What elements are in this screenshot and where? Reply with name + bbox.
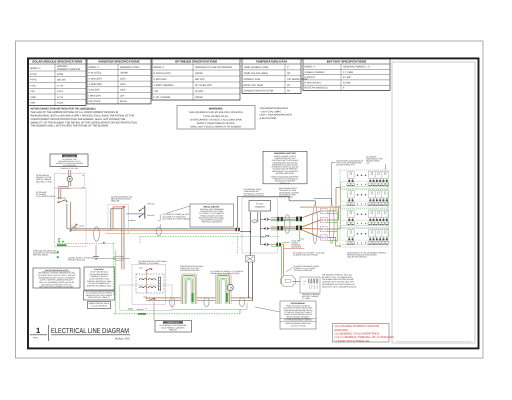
conduit GEC xyxy=(113,256,124,260)
table OPTIMIZER SPECIFICATIONS xyxy=(152,58,240,100)
svg-text:120/240V, 1-PH, NEMA 1: 120/240V, 1-PH, NEMA 1 xyxy=(139,262,160,265)
svg-text:P RATED: P RATED xyxy=(305,76,315,79)
wire panel bus down xyxy=(67,202,71,230)
svg-text:240V: 240V xyxy=(120,83,126,86)
svg-text:P STC: P STC xyxy=(30,73,37,76)
wire ground run dashed xyxy=(140,237,280,254)
table BATTERY SPECIFICATIONS xyxy=(303,58,390,90)
note optimizer leader xyxy=(366,156,386,170)
wire ground bottom run xyxy=(114,244,247,315)
note box conductor schedule xyxy=(84,291,115,300)
svg-text:SHALL NOT EXCEED AMPACITY OF B: SHALL NOT EXCEED AMPACITY OF BUSBAR. xyxy=(190,126,242,129)
svg-text:I SC: I SC xyxy=(154,90,159,93)
svg-text:(20) SOLARIA POWERXT-400R-PM: (20) SOLARIA POWERXT-400R-PM xyxy=(335,325,380,328)
wire roof feeder xyxy=(300,206,339,208)
svg-text:35°: 35° xyxy=(287,84,291,87)
svg-text:60A RATED: 60A RATED xyxy=(291,246,301,249)
note battery cable xyxy=(286,265,320,272)
warning box rapid shutdown bottom xyxy=(280,301,316,329)
wire grounding electrode conductor xyxy=(96,245,130,259)
svg-text:INTERCONNECTION METHOD PER 705: INTERCONNECTION METHOD PER 705.12(B)(2)(… xyxy=(31,108,96,111)
utility kWh meter M1 xyxy=(67,176,72,181)
conduit loop 1 xyxy=(181,274,197,304)
PV module S3-3 xyxy=(375,210,382,221)
svg-text:BATTERY MODULES: BATTERY MODULES xyxy=(305,87,329,90)
PV module S1-3 xyxy=(375,171,382,182)
string 1 optimizer bus xyxy=(342,182,389,187)
conduit roof run xyxy=(329,205,334,244)
PV module S2-2 xyxy=(369,191,376,202)
string 3 dots xyxy=(357,213,367,215)
svg-text:36°: 36° xyxy=(287,72,291,75)
svg-text:TEMP (ASHRAE LOW): TEMP (ASHRAE LOW) xyxy=(244,66,269,69)
svg-text:P DC / STRING: P DC / STRING xyxy=(154,96,171,99)
svg-text:9.0 kW: 9.0 kW xyxy=(343,81,351,84)
svg-text:SCALE: NTS: SCALE: NTS xyxy=(115,337,130,340)
svg-text:9.11A: 9.11A xyxy=(57,90,63,93)
svg-text:6.7 kW: 6.7 kW xyxy=(343,76,351,79)
note box equipment schedule xyxy=(84,267,115,290)
svg-text:360 VDC: 360 VDC xyxy=(195,78,205,81)
svg-text:2°: 2° xyxy=(287,66,289,69)
svg-text:420V: 420V xyxy=(120,77,126,80)
warning box busbar xyxy=(177,106,255,130)
string 2 dots xyxy=(357,194,367,196)
fuse holder string 1 xyxy=(277,217,283,221)
svg-text:NEMA 3R: NEMA 3R xyxy=(111,200,120,203)
PV module S3-1 xyxy=(348,210,355,221)
svg-text:NEMA 3R WALL MOUNT: NEMA 3R WALL MOUNT xyxy=(244,194,266,197)
svg-text:SYSTEM OPERATION NOTES: SYSTEM OPERATION NOTES xyxy=(45,269,69,272)
svg-text:90°: 90° xyxy=(287,90,291,93)
note breaker sizing xyxy=(260,107,293,120)
svg-text:COMBINER: COMBINER xyxy=(255,206,266,209)
svg-text:XHHW-2 (N) + (1) 6 AWG CU (GND: XHHW-2 (N) + (1) 6 AWG CU (GND) xyxy=(211,272,241,275)
warning box multiple sources xyxy=(263,151,307,185)
svg-text:WARNING:: WARNING: xyxy=(209,107,224,111)
wire AC equipment ground xyxy=(105,232,240,234)
PV module S3-4 xyxy=(382,210,389,221)
svg-text:(1 & 2) GENERAC PWRCELL OF 17: (1 & 2) GENERAC PWRCELL OF 17 MODULES xyxy=(335,336,395,339)
svg-text:OPTIMIZER SPECIFICATIONS: OPTIMIZER SPECIFICATIONS xyxy=(175,60,217,64)
svg-text:I MP: I MP xyxy=(30,102,35,105)
PV module S2-4 xyxy=(382,191,389,202)
svg-text:CU GND IN FREE AIR: CU GND IN FREE AIR xyxy=(294,269,313,272)
svg-text:USABLE ENERGY: USABLE ENERGY xyxy=(305,71,326,74)
fuse holder string 2 xyxy=(277,226,283,230)
surge protection device xyxy=(246,255,255,268)
svg-text:41.1V: 41.1V xyxy=(57,96,64,99)
production meter M xyxy=(227,285,233,291)
svg-text:BEFORE SERVICING.: BEFORE SERVICING. xyxy=(276,172,295,175)
svg-text:400W: 400W xyxy=(57,73,64,76)
string 3 optimizer bus xyxy=(342,221,389,226)
PV string 4 group box xyxy=(340,229,388,248)
svg-text:CABLES PER MODULE: CABLES PER MODULE xyxy=(347,256,368,259)
svg-text:96.5%: 96.5% xyxy=(120,100,128,103)
svg-text:SUPPORTED PER NEC: SUPPORTED PER NEC xyxy=(180,269,200,272)
backup loads panel enclosure xyxy=(132,264,166,304)
PV module S4-4 xyxy=(382,230,389,241)
PV module S1-2 xyxy=(369,171,376,182)
svg-text:ELECTRICAL LINE DIAGRAM: ELECTRICAL LINE DIAGRAM xyxy=(51,327,129,335)
svg-text:CONDUCTOR RATED FOR: CONDUCTOR RATED FOR xyxy=(244,90,274,93)
PV breaker 40A xyxy=(70,224,84,232)
backup panel main breaker 200A xyxy=(139,266,152,271)
PV string 3 group box xyxy=(340,209,388,228)
svg-text:MODEL #: MODEL # xyxy=(154,66,165,69)
PV module S2-3 xyxy=(375,191,382,202)
backup feed breaker 125A xyxy=(143,296,155,302)
svg-text:PER PLAN. 30A RATED: PER PLAN. 30A RATED xyxy=(202,221,223,224)
svg-text:17.1 kWh: 17.1 kWh xyxy=(302,297,310,300)
conduit riser xyxy=(239,297,244,306)
svg-text:SEE PLAN FOR EQUIPMENT LOCATIO: SEE PLAN FOR EQUIPMENT LOCATIONS. xyxy=(39,286,74,289)
string 1 dots xyxy=(357,174,367,176)
svg-text:2900W: 2900W xyxy=(195,72,203,75)
svg-text:CONNECTED IN PARALLEL: CONNECTED IN PARALLEL xyxy=(335,340,371,343)
svg-text:SOLAR MODULE SPECIFICATIONS: SOLAR MODULE SPECIFICATIONS xyxy=(32,60,82,64)
svg-text:30 ADC: 30 ADC xyxy=(195,90,204,93)
inner drawing frame xyxy=(28,58,479,348)
string 4 optimizer bus xyxy=(342,240,389,245)
conduit at ATS run xyxy=(156,227,161,236)
wire homerun string 2 xyxy=(302,207,341,227)
svg-text:TEMPERATURE DATA: TEMPERATURE DATA xyxy=(256,60,288,64)
right margin panel xyxy=(392,62,475,343)
table SOLAR MODULE SPECIFICATIONS xyxy=(29,58,87,105)
svg-text:P AC (CEC): P AC (CEC) xyxy=(89,72,102,75)
combiner breaker 2P row 4 xyxy=(261,243,271,246)
svg-text:SERVICING.: SERVICING. xyxy=(280,182,291,185)
svg-text:INVERTER SPECIFICATIONS: INVERTER SPECIFICATIONS xyxy=(99,60,140,64)
right panel footer line xyxy=(396,341,471,343)
svg-text:BATTERY SPECIFICATIONS: BATTERY SPECIFICATIONS xyxy=(327,60,367,64)
panel lower enclosure xyxy=(120,285,172,310)
wire string ground daisy chain xyxy=(341,182,389,240)
utility service label box xyxy=(50,154,88,170)
wire panel to ESS label xyxy=(153,302,155,321)
svg-text:ROOF TOP TEMP: ROOF TOP TEMP xyxy=(244,84,264,87)
svg-text:(5) PER STRING TYP.: (5) PER STRING TYP. xyxy=(337,164,356,167)
meter enclosure xyxy=(55,173,85,189)
svg-text:17.1 kWh: 17.1 kWh xyxy=(343,71,354,74)
transfer switch ATS xyxy=(139,203,155,219)
conduit at service panel xyxy=(94,227,100,241)
conduit bottom run 2 xyxy=(204,297,209,306)
outer sheet border xyxy=(16,41,484,358)
inverter enclosure xyxy=(242,198,278,254)
svg-text:V MP: V MP xyxy=(30,96,36,99)
svg-text:9.52A: 9.52A xyxy=(57,102,64,105)
system summary box red xyxy=(333,324,395,343)
svg-text:SUB OUT: SUB OUT xyxy=(147,214,155,217)
wire homerun string 3 xyxy=(302,228,341,230)
combiner breaker 2P row 2 xyxy=(261,227,271,230)
branch breakers dashed group xyxy=(136,274,164,293)
svg-text:I MAX (DP): I MAX (DP) xyxy=(89,94,101,97)
note existing grounding electrode xyxy=(33,250,59,259)
PV module S4-3 xyxy=(375,230,382,241)
connector pair string 2 xyxy=(296,226,302,231)
svg-text:W/ ALTERNATES: W/ ALTERNATES xyxy=(63,164,77,167)
svg-text:V MAX MAX: V MAX MAX xyxy=(154,78,168,81)
svg-text:TOTAL RATING OF ALL: TOTAL RATING OF ALL xyxy=(203,115,229,118)
svg-text:THIS EQUIPMENT FED BY MULTIPLE: THIS EQUIPMENT FED BY MULTIPLE SOURCES. xyxy=(189,111,244,114)
svg-text:384.2W: 384.2W xyxy=(57,79,66,82)
svg-text:P RATED (STC): P RATED (STC) xyxy=(154,72,171,75)
svg-text:MODULES: MODULES xyxy=(335,329,349,332)
wire ground jumper combiner xyxy=(271,231,305,250)
wire RSS signal xyxy=(238,196,316,228)
wire AC run L1 L2 xyxy=(67,229,236,231)
svg-text:TYP.: TYP. xyxy=(366,162,370,165)
svg-text:MODEL #: MODEL # xyxy=(305,66,316,69)
callout leader REbus xyxy=(158,206,190,229)
svg-text:60 TO 360 VDC: 60 TO 360 VDC xyxy=(195,84,212,87)
svg-text:47.4V: 47.4V xyxy=(57,84,64,87)
svg-text:240V: 240V xyxy=(120,89,126,92)
junction connector string 3 xyxy=(320,226,327,231)
svg-text:V MPPT NOMINAL: V MPPT NOMINAL xyxy=(154,84,175,87)
PV string 2 group box xyxy=(340,190,388,209)
svg-text:SNAPRS DISCONNECTS (20): SNAPRS DISCONNECTS (20) xyxy=(87,285,111,288)
combiner fuse xyxy=(252,220,258,223)
svg-text:V MAX (DP): V MAX (DP) xyxy=(89,77,102,80)
junction connector string 4 xyxy=(320,235,327,240)
string 2 optimizer bus xyxy=(342,201,389,206)
note spd xyxy=(282,239,302,248)
PV module S4-2 xyxy=(369,230,376,241)
svg-text:NEUTRAL, 2" EMT: NEUTRAL, 2" EMT xyxy=(36,180,53,183)
PV module S2-1 xyxy=(348,191,355,202)
ground rod symbol xyxy=(93,257,99,260)
conduit loop 2 xyxy=(216,274,232,304)
svg-text:7600W: 7600W xyxy=(120,72,128,75)
svg-text:P MAX (PEAK): P MAX (PEAK) xyxy=(305,81,321,84)
svg-text:PV LINK: PV LINK xyxy=(256,203,264,206)
note box interconnection lower xyxy=(33,268,80,289)
wire AC to combiner xyxy=(240,231,250,233)
svg-text:UTILITY GRID: UTILITY GRID xyxy=(64,155,76,158)
svg-text:THE BUSBAR SHALL NOT EXCEED TH: THE BUSBAR SHALL NOT EXCEED THE RATING O… xyxy=(31,125,110,128)
svg-text:MODEL #: MODEL # xyxy=(89,66,100,69)
wire battery branch xyxy=(282,245,305,279)
generac equipment label box xyxy=(155,321,192,333)
wire riser to ATS xyxy=(111,206,125,270)
note box inverter circuit xyxy=(190,204,234,227)
svg-text:+ (1) 6 AWG CU (GND): + (1) 6 AWG CU (GND) xyxy=(36,195,56,198)
wire backup feeder down xyxy=(146,298,182,302)
svg-text:WARNING! ELECTRIC: WARNING! ELECTRIC xyxy=(274,152,296,155)
conduit bottom run 1 xyxy=(170,297,175,306)
string 4 dots xyxy=(357,233,367,235)
wire panel bus orange xyxy=(146,271,148,293)
svg-text:PV-6: PV-6 xyxy=(33,337,39,340)
svg-text:200A MAIN: 200A MAIN xyxy=(57,196,66,199)
note box pv sign xyxy=(299,271,301,273)
connector battery feed xyxy=(271,243,284,246)
neutral-ground bond xyxy=(58,238,61,242)
combiner dc bus wires xyxy=(250,212,261,255)
sheet number 1 xyxy=(30,325,49,341)
svg-text:NEMA 3R: NEMA 3R xyxy=(169,328,178,331)
combiner spare jumper row 3 xyxy=(261,235,269,237)
wire meter to main breaker xyxy=(59,187,71,199)
wire homerun string 1 xyxy=(302,188,341,218)
svg-text:SIZED PER NEC TABLE C.1: SIZED PER NEC TABLE C.1 xyxy=(88,296,111,299)
PV module S1-4 xyxy=(382,171,389,182)
PV link combiner xyxy=(249,201,271,212)
svg-text:GENERAC PWRCELL 17: GENERAC PWRCELL 17 xyxy=(343,66,371,69)
battery connector plug xyxy=(281,276,301,287)
note box labels xyxy=(88,302,111,309)
wire ATS load blue xyxy=(127,213,145,215)
wire loops to inverter riser xyxy=(231,268,252,301)
title electrical line diagram xyxy=(51,327,130,340)
leader to warning box xyxy=(255,307,280,312)
svg-text:& BUS RATING: & BUS RATING xyxy=(260,117,277,120)
main service panel enclosure xyxy=(55,188,87,247)
main breaker 200A xyxy=(57,196,68,203)
note modules per string xyxy=(332,160,364,205)
svg-text:32A: 32A xyxy=(120,94,125,97)
svg-text:GENERAC PV LINK OPTIMIZERS: GENERAC PV LINK OPTIMIZERS xyxy=(195,66,232,69)
svg-text:TEMP (2% AVG HIGH): TEMP (2% AVG HIGH) xyxy=(244,72,269,75)
svg-text:230/115V UTILITY SVC: 230/115V UTILITY SVC xyxy=(61,167,80,170)
svg-text:(1) 10 AWG CU THWN-2 (GND): (1) 10 AWG CU THWN-2 (GND) xyxy=(163,217,190,220)
svg-text:SUPPLY OVERCURRENT DEVICE,: SUPPLY OVERCURRENT DEVICE, xyxy=(197,122,236,125)
wire DC string 1 bundle xyxy=(271,218,296,221)
svg-text:(1) GENERAC X7602 INVERTER(S): (1) GENERAC X7602 INVERTER(S) xyxy=(335,333,380,336)
wire utility service drop xyxy=(69,170,71,187)
svg-text:V NOM (DP): V NOM (DP) xyxy=(89,83,103,86)
svg-text:GENERAC X7602: GENERAC X7602 xyxy=(120,66,140,69)
svg-text:V AC (DP): V AC (DP) xyxy=(89,89,100,92)
connector pair string 1 xyxy=(296,217,302,222)
svg-text:OVERCURRENT DEVICES, EXCLUDING: OVERCURRENT DEVICES, EXCLUDING MAIN xyxy=(190,118,242,121)
svg-text:MODEL #: MODEL # xyxy=(30,67,41,70)
PV module S3-2 xyxy=(369,210,376,221)
svg-text:I SC: I SC xyxy=(30,90,35,93)
junction connector string 2 xyxy=(320,217,327,222)
svg-text:XFER SW: XFER SW xyxy=(147,203,155,206)
wire RSS to array xyxy=(314,199,332,205)
conduit attic run xyxy=(313,205,318,244)
combiner breaker 2P row 1 xyxy=(261,218,271,221)
connector AC run xyxy=(235,228,240,231)
ATS enclosure xyxy=(108,204,128,233)
wire between loops xyxy=(197,298,216,301)
svg-text:SEARCH OF SELF-CONSUMPTION MOD: SEARCH OF SELF-CONSUMPTION MODE xyxy=(322,285,357,288)
junction connector string 1 xyxy=(320,208,327,213)
table INVERTER SPECIFICATIONS xyxy=(87,58,151,104)
svg-text:24: 24 xyxy=(304,280,306,283)
note interconnection method xyxy=(31,108,138,128)
svg-text:POWERXT-400R-PM: POWERXT-400R-PM xyxy=(57,68,80,71)
wire DC string 2 bundle xyxy=(271,227,296,230)
PV module S4-1 xyxy=(348,230,355,241)
note 200A bus xyxy=(137,308,148,311)
svg-text:V OC: V OC xyxy=(30,84,36,87)
conduit inverter output xyxy=(285,215,290,233)
table TEMPERATURE DATA xyxy=(242,58,308,93)
svg-text:2900W: 2900W xyxy=(195,96,203,99)
ground bus bar xyxy=(57,241,114,246)
svg-text:& LOCAL AHJ REQS: & LOCAL AHJ REQS xyxy=(91,304,108,307)
battery PWRCELL xyxy=(300,277,320,293)
svg-text:PER NEC 250.50: PER NEC 250.50 xyxy=(33,254,48,257)
wire array ground riser xyxy=(327,211,337,243)
PV string 1 group box xyxy=(340,170,388,189)
svg-text:M: M xyxy=(230,287,232,290)
PV module S1-1 xyxy=(348,171,355,182)
wire homerun string 4 xyxy=(302,230,341,246)
svg-text:P PTC: P PTC xyxy=(30,79,37,82)
svg-text:PER NEC 250.52-53: PER NEC 250.52-53 xyxy=(68,259,85,262)
svg-text:CONDUIT RUN: CONDUIT RUN xyxy=(244,78,261,81)
svg-text:CU BARE GND PER STRING: CU BARE GND PER STRING xyxy=(293,254,318,257)
svg-text:EFF (CEC): EFF (CEC) xyxy=(89,100,101,103)
